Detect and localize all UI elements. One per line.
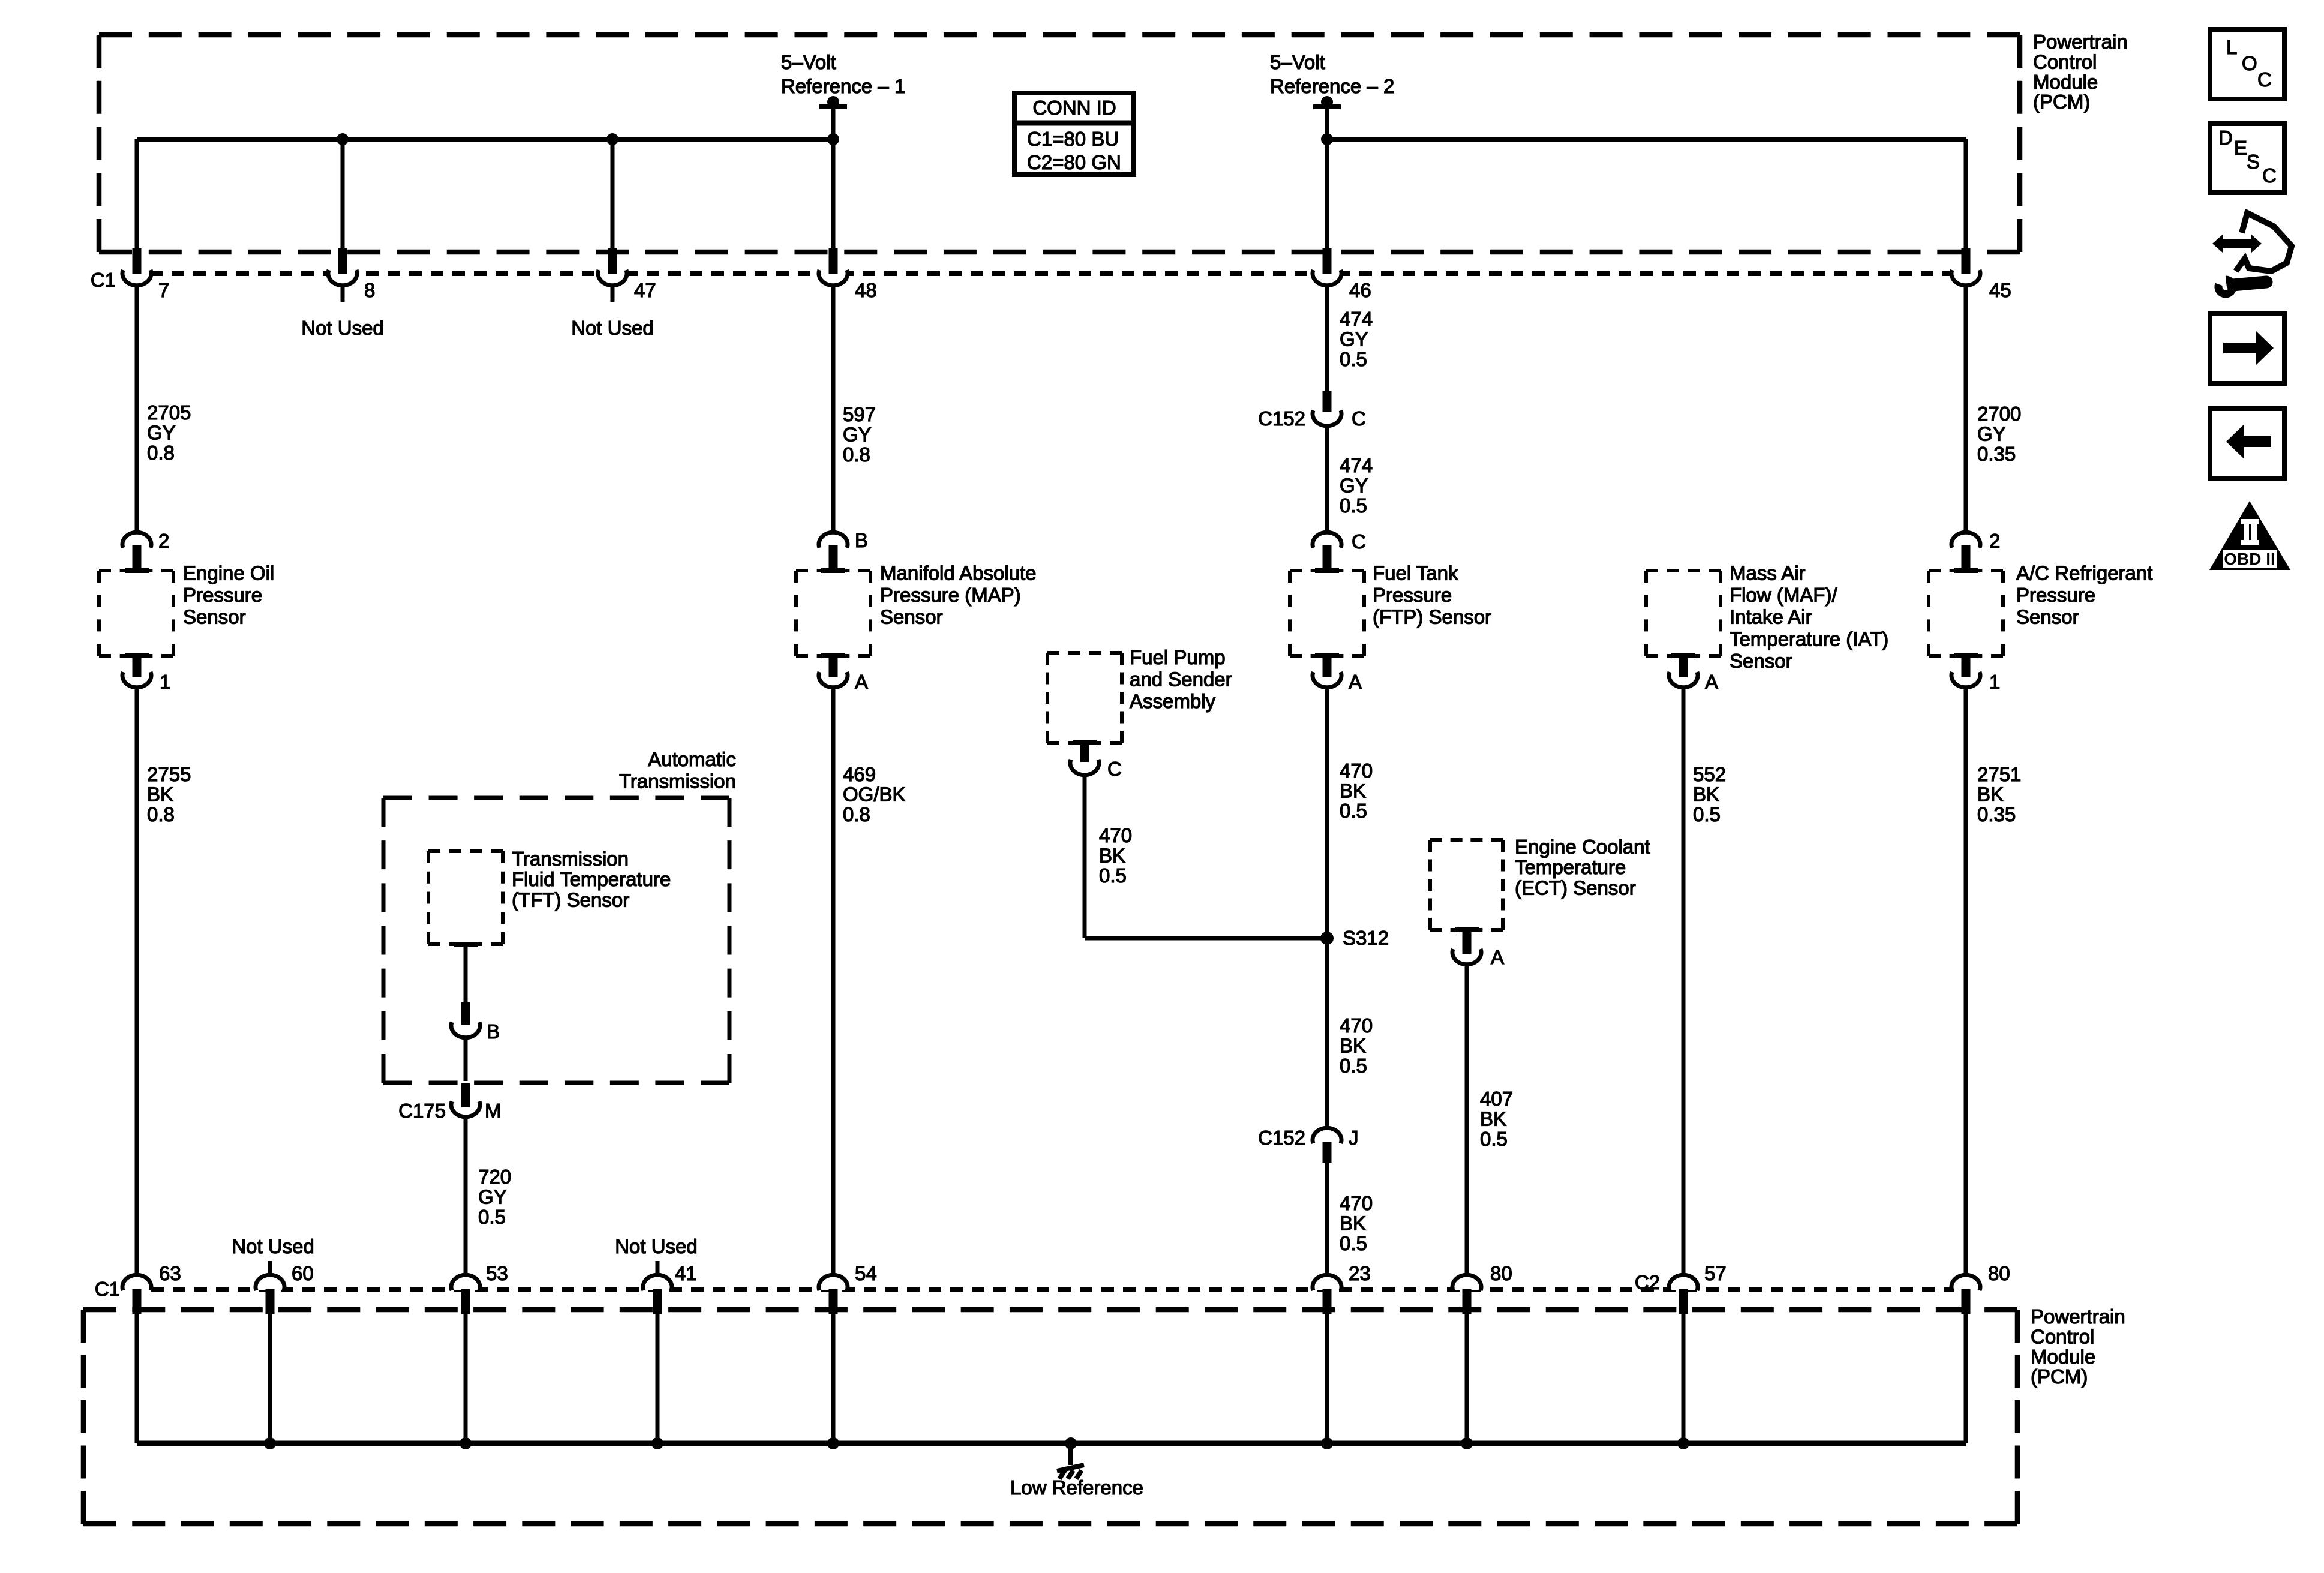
svg-text:C152: C152 xyxy=(1258,407,1305,430)
svg-text:597: 597 xyxy=(843,403,876,425)
svg-text:(PCM): (PCM) xyxy=(2033,91,2090,113)
svg-text:BK: BK xyxy=(1099,844,1125,866)
svg-text:Transmission: Transmission xyxy=(619,770,736,792)
svg-text:Intake Air: Intake Air xyxy=(1730,606,1812,628)
svg-text:GY: GY xyxy=(1977,422,2006,445)
svg-text:Sensor: Sensor xyxy=(183,606,246,628)
svg-text:0.5: 0.5 xyxy=(1099,864,1127,887)
svg-text:0.35: 0.35 xyxy=(1977,443,2016,465)
svg-text:OBD II: OBD II xyxy=(2224,550,2275,568)
svg-text:CONN ID: CONN ID xyxy=(1032,97,1116,119)
svg-text:Pressure: Pressure xyxy=(183,584,262,606)
svg-text:(ECT) Sensor: (ECT) Sensor xyxy=(1515,876,1636,899)
svg-text:C1: C1 xyxy=(91,269,116,291)
svg-text:Powertrain: Powertrain xyxy=(2033,31,2128,53)
svg-text:OG/BK: OG/BK xyxy=(843,783,906,805)
svg-text:A/C Refrigerant: A/C Refrigerant xyxy=(2016,562,2152,584)
svg-text:5–Volt: 5–Volt xyxy=(781,51,836,73)
svg-text:Control: Control xyxy=(2031,1325,2094,1347)
svg-text:L: L xyxy=(2226,36,2237,58)
svg-text:Pressure: Pressure xyxy=(1373,584,1452,606)
svg-text:(TFT) Sensor: (TFT) Sensor xyxy=(512,888,629,911)
svg-text:M: M xyxy=(485,1100,502,1122)
svg-text:S: S xyxy=(2247,151,2260,173)
svg-text:46: 46 xyxy=(1349,279,1371,301)
svg-text:48: 48 xyxy=(855,279,877,301)
svg-text:Fuel Tank: Fuel Tank xyxy=(1373,562,1458,584)
svg-text:80: 80 xyxy=(1490,1262,1512,1284)
svg-text:1: 1 xyxy=(160,671,170,693)
svg-text:BK: BK xyxy=(1340,1212,1366,1234)
svg-text:Temperature: Temperature xyxy=(1515,856,1626,878)
svg-text:720: 720 xyxy=(478,1166,511,1188)
svg-text:O: O xyxy=(2242,52,2257,74)
svg-text:C2: C2 xyxy=(1635,1271,1660,1293)
svg-text:Not Used: Not Used xyxy=(615,1235,698,1257)
svg-text:57: 57 xyxy=(1704,1262,1727,1284)
svg-text:0.8: 0.8 xyxy=(147,803,175,825)
svg-text:GY: GY xyxy=(843,423,872,445)
svg-text:Not Used: Not Used xyxy=(301,317,384,339)
svg-text:470: 470 xyxy=(1340,1014,1373,1037)
svg-text:2: 2 xyxy=(1989,530,2000,552)
svg-text:0.5: 0.5 xyxy=(478,1206,506,1228)
svg-text:BK: BK xyxy=(1977,783,2004,805)
svg-text:Temperature (IAT): Temperature (IAT) xyxy=(1730,628,1888,650)
svg-text:0.5: 0.5 xyxy=(1340,348,1367,370)
svg-text:Not Used: Not Used xyxy=(571,317,654,339)
svg-text:Sensor: Sensor xyxy=(880,606,943,628)
svg-text:Control: Control xyxy=(2033,50,2097,73)
svg-text:C175: C175 xyxy=(398,1100,446,1122)
svg-text:E: E xyxy=(2234,137,2247,159)
svg-text:Mass Air: Mass Air xyxy=(1730,562,1806,584)
svg-text:0.5: 0.5 xyxy=(1340,800,1367,822)
svg-text:Flow (MAF)/: Flow (MAF)/ xyxy=(1730,584,1837,606)
svg-text:7: 7 xyxy=(158,279,169,301)
svg-text:BK: BK xyxy=(1340,1034,1366,1056)
svg-text:Fluid Temperature: Fluid Temperature xyxy=(512,868,671,890)
svg-text:0.8: 0.8 xyxy=(147,442,175,464)
svg-text:2751: 2751 xyxy=(1977,763,2021,785)
svg-text:Transmission: Transmission xyxy=(512,848,629,870)
svg-text:BK: BK xyxy=(147,783,173,805)
svg-text:469: 469 xyxy=(843,763,876,785)
svg-text:BK: BK xyxy=(1480,1107,1506,1130)
svg-text:B: B xyxy=(855,529,868,551)
svg-text:2700: 2700 xyxy=(1977,403,2021,425)
svg-text:Sensor: Sensor xyxy=(2016,606,2079,628)
svg-text:470: 470 xyxy=(1099,824,1132,846)
svg-text:Reference – 2: Reference – 2 xyxy=(1270,75,1394,97)
svg-text:60: 60 xyxy=(292,1262,314,1284)
svg-text:Not Used: Not Used xyxy=(232,1235,314,1257)
svg-text:C2=80 GN: C2=80 GN xyxy=(1027,151,1121,173)
svg-text:Low Reference: Low Reference xyxy=(1010,1476,1143,1499)
svg-text:A: A xyxy=(1705,671,1718,693)
svg-text:Engine Oil: Engine Oil xyxy=(183,562,274,584)
svg-text:GY: GY xyxy=(147,421,176,443)
svg-text:0.5: 0.5 xyxy=(1340,1232,1367,1254)
svg-text:GY: GY xyxy=(478,1185,507,1208)
svg-text:2705: 2705 xyxy=(147,401,191,424)
svg-text:C: C xyxy=(2262,164,2277,187)
svg-text:A: A xyxy=(1349,671,1362,693)
svg-text:Module: Module xyxy=(2033,71,2098,93)
svg-text:80: 80 xyxy=(1988,1262,2010,1284)
svg-text:0.8: 0.8 xyxy=(843,803,870,825)
svg-text:C152: C152 xyxy=(1258,1127,1305,1149)
svg-text:1: 1 xyxy=(1989,671,2000,693)
svg-text:Sensor: Sensor xyxy=(1730,650,1792,672)
svg-text:474: 474 xyxy=(1340,454,1373,476)
svg-text:0.5: 0.5 xyxy=(1693,803,1721,825)
svg-text:407: 407 xyxy=(1480,1088,1513,1110)
svg-text:0.5: 0.5 xyxy=(1340,494,1367,517)
svg-text:Reference – 1: Reference – 1 xyxy=(781,75,905,97)
svg-text:54: 54 xyxy=(855,1262,877,1284)
svg-text:470: 470 xyxy=(1340,760,1373,782)
svg-text:C1: C1 xyxy=(95,1278,120,1300)
svg-text:Assembly: Assembly xyxy=(1130,690,1216,712)
svg-text:C: C xyxy=(2257,68,2272,91)
svg-text:47: 47 xyxy=(634,279,656,301)
svg-text:2755: 2755 xyxy=(147,763,191,785)
svg-text:BK: BK xyxy=(1693,783,1719,805)
svg-text:GY: GY xyxy=(1340,328,1368,350)
svg-text:D: D xyxy=(2218,127,2233,149)
svg-text:552: 552 xyxy=(1693,763,1726,785)
svg-text:Manifold Absolute: Manifold Absolute xyxy=(880,562,1037,584)
svg-text:Engine Coolant: Engine Coolant xyxy=(1515,836,1650,858)
svg-text:474: 474 xyxy=(1340,308,1373,330)
svg-text:BK: BK xyxy=(1340,779,1366,801)
svg-text:0.5: 0.5 xyxy=(1340,1055,1367,1077)
svg-text:C: C xyxy=(1352,530,1366,553)
svg-text:53: 53 xyxy=(486,1262,508,1284)
svg-text:63: 63 xyxy=(159,1262,181,1284)
svg-text:470: 470 xyxy=(1340,1192,1373,1214)
svg-text:8: 8 xyxy=(364,279,375,301)
svg-text:S312: S312 xyxy=(1343,927,1389,949)
svg-text:Fuel Pump: Fuel Pump xyxy=(1130,646,1226,668)
svg-text:(PCM): (PCM) xyxy=(2031,1365,2088,1388)
svg-text:GY: GY xyxy=(1340,474,1368,496)
svg-text:0.35: 0.35 xyxy=(1977,803,2016,825)
svg-text:5–Volt: 5–Volt xyxy=(1270,51,1325,73)
svg-text:A: A xyxy=(855,671,868,693)
svg-text:C1=80 BU: C1=80 BU xyxy=(1027,128,1119,150)
svg-text:C: C xyxy=(1352,407,1366,430)
svg-text:A: A xyxy=(1491,946,1504,968)
svg-text:J: J xyxy=(1349,1127,1359,1149)
svg-text:Powertrain: Powertrain xyxy=(2031,1305,2125,1328)
svg-text:0.8: 0.8 xyxy=(843,443,870,466)
svg-text:Pressure: Pressure xyxy=(2016,584,2095,606)
svg-text:(FTP) Sensor: (FTP) Sensor xyxy=(1373,606,1491,628)
svg-text:23: 23 xyxy=(1349,1262,1371,1284)
svg-text:Module: Module xyxy=(2031,1346,2095,1368)
svg-text:Pressure (MAP): Pressure (MAP) xyxy=(880,584,1021,606)
svg-text:41: 41 xyxy=(675,1262,697,1284)
svg-text:45: 45 xyxy=(1989,279,2011,301)
svg-text:Automatic: Automatic xyxy=(648,748,736,770)
svg-text:C: C xyxy=(1107,758,1122,780)
svg-text:and Sender: and Sender xyxy=(1130,668,1232,691)
svg-text:2: 2 xyxy=(158,530,169,552)
svg-text:B: B xyxy=(487,1020,500,1043)
svg-text:0.5: 0.5 xyxy=(1480,1128,1508,1150)
